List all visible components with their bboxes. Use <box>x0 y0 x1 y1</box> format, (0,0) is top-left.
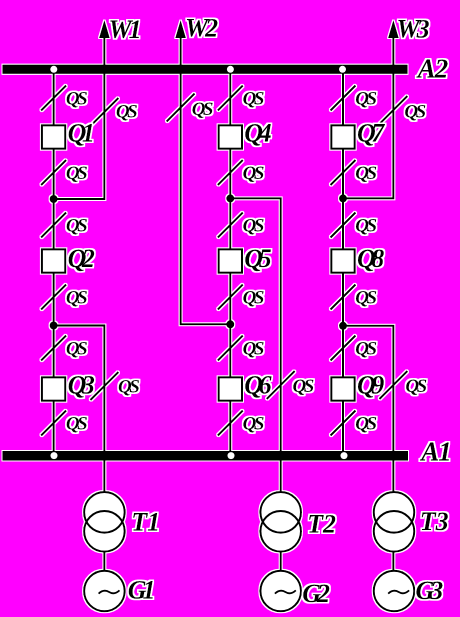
svg-text:QS: QS <box>355 339 376 360</box>
svg-text:QS: QS <box>66 414 87 435</box>
svg-text:Q1: Q1 <box>68 119 93 148</box>
svg-text:Q2: Q2 <box>68 244 95 273</box>
svg-text:QS: QS <box>243 288 264 309</box>
svg-text:QS: QS <box>405 376 426 397</box>
svg-text:G2: G2 <box>302 579 330 608</box>
svg-text:QS: QS <box>243 89 264 110</box>
svg-text:QS: QS <box>355 216 376 237</box>
svg-text:QS: QS <box>66 288 87 309</box>
svg-text:QS: QS <box>66 89 87 110</box>
svg-text:QS: QS <box>404 102 425 123</box>
svg-text:T1: T1 <box>131 508 160 537</box>
svg-text:QS: QS <box>355 288 376 309</box>
svg-text:T3: T3 <box>420 507 449 536</box>
svg-text:G1: G1 <box>128 575 154 604</box>
svg-text:Q5: Q5 <box>244 244 271 273</box>
svg-text:QS: QS <box>355 163 376 184</box>
svg-text:T2: T2 <box>307 510 336 539</box>
svg-text:QS: QS <box>355 89 376 110</box>
svg-text:QS: QS <box>66 216 87 237</box>
svg-text:W3: W3 <box>397 14 430 43</box>
svg-text:QS: QS <box>243 216 264 237</box>
svg-text:Q9: Q9 <box>357 371 384 400</box>
svg-text:Q3: Q3 <box>68 371 95 400</box>
svg-text:A1: A1 <box>419 437 451 467</box>
svg-text:QS: QS <box>192 99 213 120</box>
svg-text:QS: QS <box>66 163 87 184</box>
svg-text:QS: QS <box>116 102 137 123</box>
svg-text:QS: QS <box>243 163 264 184</box>
svg-text:G3: G3 <box>416 576 444 605</box>
svg-text:Q6: Q6 <box>244 371 271 400</box>
svg-text:QS: QS <box>243 339 264 360</box>
svg-text:QS: QS <box>355 414 376 435</box>
svg-text:QS: QS <box>293 376 314 397</box>
svg-text:Q8: Q8 <box>357 244 384 273</box>
svg-text:Q4: Q4 <box>244 119 271 148</box>
svg-text:QS: QS <box>243 414 264 435</box>
svg-text:QS: QS <box>118 377 139 398</box>
svg-text:QS: QS <box>66 339 87 360</box>
svg-text:W2: W2 <box>185 14 218 43</box>
svg-text:A2: A2 <box>416 54 448 84</box>
svg-text:W1: W1 <box>109 15 140 44</box>
